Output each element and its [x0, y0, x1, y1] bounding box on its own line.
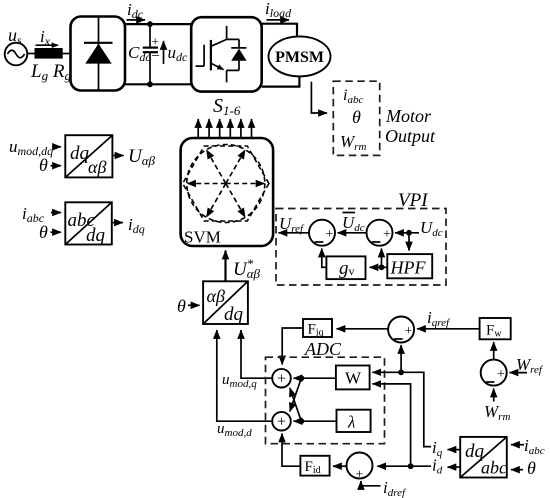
svg-text:+: + — [356, 468, 364, 483]
svm vector arrows — [187, 150, 264, 217]
svg-text:dq: dq — [224, 304, 244, 325]
motor output dashed box — [333, 81, 379, 155]
wire id to dsum — [377, 465, 431, 467]
summer uq — [272, 369, 291, 388]
block Fiq — [303, 319, 332, 339]
gate arrows S1-6 — [198, 119, 251, 138]
arrow HPF to S2 — [381, 249, 383, 268]
svg-text:θ: θ — [527, 458, 536, 478]
wire S2 to S1 — [338, 232, 367, 234]
svg-text:dq: dq — [70, 143, 90, 164]
block dq to abc — [460, 437, 507, 478]
arrow id out — [448, 466, 461, 468]
wire dc top — [125, 23, 192, 25]
summer S1 left — [309, 220, 335, 246]
svg-text:+: + — [405, 324, 413, 339]
block Fw — [480, 318, 511, 340]
wire Fiq to sum q — [282, 328, 303, 365]
svg-text:PMSM: PMSM — [275, 49, 324, 66]
arrow idref — [361, 481, 381, 486]
igbt Q with diode — [196, 26, 247, 83]
summer d-axis — [347, 453, 373, 483]
svg-text:+: + — [277, 371, 286, 388]
block lambda — [337, 410, 371, 432]
svg-text:λ: λ — [347, 413, 355, 432]
svg-text:+: + — [152, 34, 159, 49]
svm block — [181, 138, 274, 247]
arrow udc — [163, 41, 165, 64]
arrow iq out — [448, 449, 461, 451]
summer S2 right — [367, 220, 393, 246]
svg-text:HPF: HPF — [390, 258, 427, 278]
svg-text:+: + — [383, 227, 391, 242]
svg-text:θ: θ — [39, 155, 48, 175]
wire W to uq sum — [294, 377, 336, 379]
svg-text:Motor: Motor — [385, 106, 432, 126]
wire dc bottom — [125, 83, 192, 85]
wire Fw to qsum — [417, 328, 480, 330]
svg-text:θ: θ — [39, 222, 48, 242]
wire id path to W — [372, 384, 410, 466]
wire lambda to ud sum — [294, 420, 337, 422]
junction iq feedback — [398, 369, 404, 375]
arrow theta2 — [51, 231, 62, 233]
wire speed sum to Fw — [493, 342, 495, 360]
svg-text:abc: abc — [481, 458, 507, 478]
wire Udc to S2 — [395, 232, 419, 234]
arrow Uab* into svm — [224, 251, 226, 282]
summer q-axis — [388, 317, 414, 343]
rectifier block — [71, 17, 126, 91]
wire dsum to Fid — [333, 465, 347, 467]
block alphabeta to dq — [203, 281, 248, 325]
svg-text:dq: dq — [86, 225, 106, 246]
arrow Udc to HPF — [408, 233, 410, 251]
wire motor tap — [311, 82, 327, 113]
arrow theta1 — [51, 165, 62, 167]
arrow theta4 — [511, 469, 523, 471]
svg-text:W: W — [345, 369, 362, 388]
svg-text:ADC: ADC — [304, 339, 342, 359]
wire umod,d — [217, 330, 272, 421]
VPI dashed box — [276, 209, 446, 286]
arrow iload — [267, 19, 290, 21]
cross wire lower to upper — [290, 388, 302, 421]
svg-text:θ: θ — [352, 107, 361, 127]
summer ud — [272, 412, 291, 431]
inverter block — [191, 17, 262, 91]
svg-text:+: + — [326, 227, 334, 242]
junction lambda out — [298, 418, 304, 424]
block gv — [326, 256, 365, 279]
inductor Lg Rg (black box) — [35, 48, 63, 59]
arrow Uab out — [112, 155, 123, 157]
wire HPF to gv — [370, 266, 388, 268]
wire iq path to W — [372, 372, 431, 446]
arrow Wrm up — [493, 389, 495, 402]
ADC dashed box — [266, 357, 385, 444]
motor PMSM — [269, 36, 331, 76]
wire Lg to rectifier — [63, 53, 71, 55]
wire inverter to pmsm top — [262, 24, 297, 37]
svg-text:θ: θ — [177, 296, 186, 316]
svg-text:VPI: VPI — [398, 190, 429, 211]
svg-text:+: + — [497, 367, 505, 382]
junction W out — [298, 375, 304, 381]
arrow iabc2 — [51, 212, 61, 214]
junction dc bottom — [147, 81, 153, 87]
svg-text:−: − — [152, 49, 160, 65]
wire iq feedback to qsum — [400, 345, 402, 372]
wire umod,q — [241, 330, 272, 378]
svg-text:SVM: SVM — [184, 228, 221, 247]
arrow theta3 — [188, 304, 200, 306]
block dq to alphabeta — [65, 135, 112, 177]
wire source to Lg — [27, 53, 34, 55]
arrow idq out — [112, 222, 123, 224]
arrow ix — [36, 44, 59, 46]
svg-text:Output: Output — [385, 126, 436, 146]
wire gv to S1 — [322, 249, 327, 268]
svg-text:αβ: αβ — [88, 157, 106, 177]
arrow iabc3 — [511, 444, 524, 446]
wire Fid to ud sum — [282, 434, 300, 467]
summer speed — [481, 360, 507, 386]
arrow Uref — [279, 232, 309, 234]
arrow Wref — [510, 372, 528, 374]
capacitor Cdc — [143, 24, 160, 84]
svm hexagon — [183, 146, 269, 221]
junction Udc — [406, 230, 412, 236]
block Fid — [300, 456, 329, 476]
block abc to dq — [65, 202, 112, 246]
junction dc top — [147, 21, 153, 27]
arrow umod,dq — [54, 146, 61, 148]
svm circle — [187, 145, 265, 223]
wire inverter to pmsm bottom — [262, 76, 300, 87]
junction HPF out — [379, 264, 385, 270]
svg-text:αβ: αβ — [207, 286, 225, 306]
cross wire upper to lower — [290, 378, 302, 411]
block W — [336, 366, 370, 390]
svg-text:+: + — [277, 414, 286, 431]
ac source us — [5, 43, 28, 66]
block HPF — [387, 254, 432, 278]
junction id — [408, 463, 414, 469]
wire qsum to Fiq — [337, 328, 389, 330]
arrow idc — [127, 19, 146, 21]
